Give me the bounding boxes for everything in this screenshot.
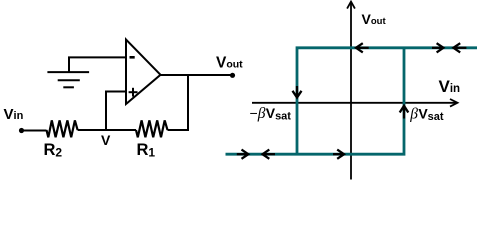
wire Vin to R2	[22, 130, 47, 132]
node V stem wire	[105, 92, 107, 132]
horizontal axis arrowhead	[450, 99, 458, 107]
vertical axis arrowhead	[347, 2, 355, 9]
op-amp U1 triangle	[126, 40, 161, 105]
arrow left on bottom line	[263, 153, 276, 155]
horizontal axis Vin	[252, 102, 457, 104]
ground bar 3	[63, 86, 74, 88]
resistor R1	[136, 120, 168, 137]
svg-text:V: V	[101, 132, 111, 148]
arrow right on bottom line near axis	[333, 153, 344, 155]
feedback vertical wire	[187, 75, 189, 131]
wire R1 to feedback corner	[168, 129, 190, 131]
arrow up on right vertical of loop	[403, 106, 405, 119]
vertical axis Vout	[350, 3, 352, 180]
wire R2 to node V to R1	[78, 129, 136, 131]
hysteresis loop bottom+right (teal)	[226, 48, 405, 154]
op-amp plus sign	[129, 91, 138, 93]
arrow right on top line	[432, 47, 443, 49]
wire to plus input	[105, 91, 126, 93]
arrow left on top line rightmost	[453, 47, 466, 49]
ground bar 2	[58, 79, 80, 81]
arrow right on bottom line leftmost	[237, 153, 249, 155]
ground wire corner	[69, 57, 126, 72]
arrow left on top line near axis	[356, 47, 369, 49]
arrow down on left vertical of loop	[296, 86, 298, 98]
node Vout terminal dot	[230, 73, 235, 78]
node Vin terminal dot	[19, 128, 24, 133]
resistor R2	[47, 120, 78, 137]
output wire	[161, 74, 233, 76]
ground bar 1	[47, 71, 89, 73]
hysteresis loop top+left (teal)	[297, 48, 477, 154]
op-amp minus sign	[130, 56, 135, 59]
